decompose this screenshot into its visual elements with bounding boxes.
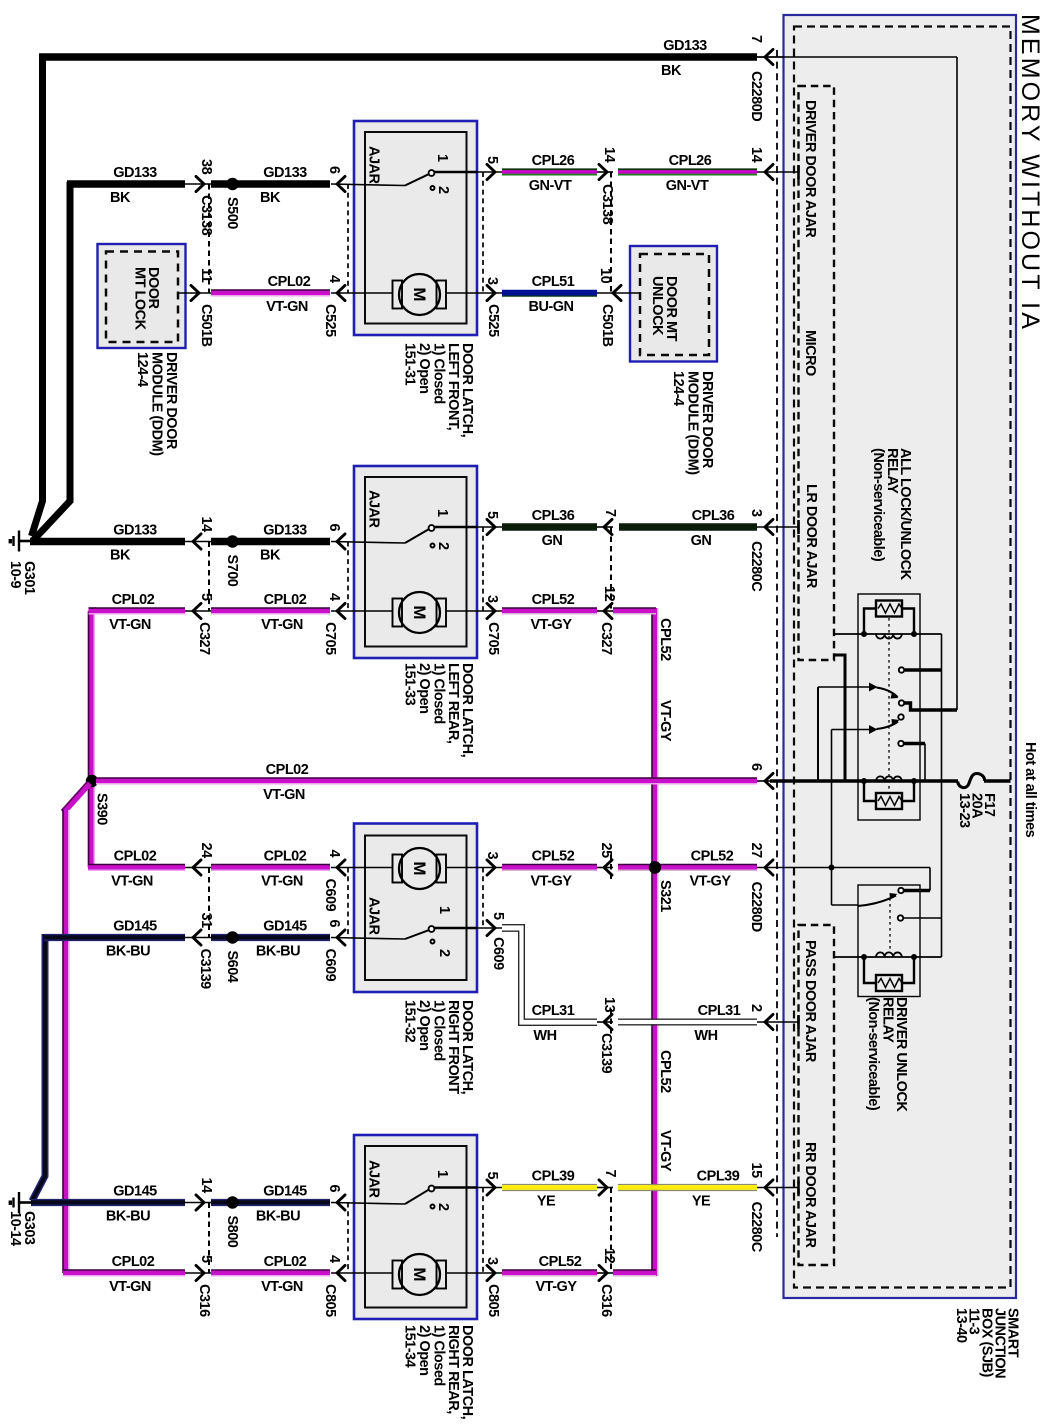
svg-text:VT-GY: VT-GY [530,617,572,633]
latch LF pin 2 label [435,186,451,194]
latch LF pin 6 [337,176,345,191]
svg-text:4: 4 [326,850,342,858]
label CPL36 GN right [691,508,735,549]
svg-text:LR DOOR AJAR: LR DOOR AJAR [803,484,819,589]
svg-text:C3139: C3139 [197,949,213,990]
latch RF text [402,1000,476,1095]
connector C3138 label left [198,195,214,236]
relay1 coil bottom bumps [876,776,902,781]
wire CPL02 VT-GN row Y4 [211,290,330,296]
junction dots relay2 coil [861,954,917,960]
label CPL39 YE left [532,1169,575,1210]
svg-text:(Non-serviceable): (Non-serviceable) [865,997,881,1111]
latch LR pin 4 [337,603,345,618]
svg-text:M: M [410,287,429,301]
wire resistor1 loops [864,609,914,633]
elbow CPL02 top at C327 row [89,608,97,614]
svg-text:2: 2 [436,949,452,957]
connector dashed stub x611 row CPL52 [610,855,612,881]
wire relay1 arm E feed [832,725,878,734]
label CPL52 VT-GY row Y9 right [689,849,733,890]
wire CPL02 VT-GN row Y9 left [88,865,185,871]
wire CPL52 VT-GY vertical x655 [652,608,658,1276]
wire CPL02 VT-GN row Y7 mid [211,608,330,614]
connector C3139 pin 13 inline [597,1014,613,1029]
pin 12 label C327 [601,586,617,602]
pin 5 label latch LR [484,511,500,519]
svg-text:VT-GN: VT-GN [261,1279,303,1295]
connector C3138/C501B dashed line x209 [208,184,210,293]
svg-text:CPL52: CPL52 [691,849,734,865]
svg-text:11: 11 [198,268,214,283]
svg-text:C2280D: C2280D [748,71,764,121]
wire CPL02 VT-GN row Y8 [96,778,757,784]
resistor relay1 bottom [876,793,902,809]
splice S604 [211,931,330,943]
svg-text:CPL52: CPL52 [657,1050,673,1093]
svg-text:4: 4 [326,275,342,283]
svg-text:C2280D: C2280D [748,882,764,932]
svg-text:CPL31: CPL31 [532,1003,575,1019]
svg-text:AJAR: AJAR [366,490,382,529]
pin 24 label [198,843,214,859]
label GD145 BK-BU mid [256,919,307,960]
label SMART JUNCTION BOX (SJB) [953,1308,1021,1378]
pin 6 label latch LR [326,524,342,532]
door latch left rear box [354,466,477,658]
svg-text:7: 7 [602,509,618,517]
svg-text:WH: WH [533,1028,556,1044]
svg-text:6: 6 [326,920,342,928]
svg-text:CPL39: CPL39 [532,1169,575,1185]
svg-text:BK: BK [260,548,281,564]
wire CPL26 GN-VT right segment [618,169,757,174]
door MT lock pin 11 [178,285,211,300]
svg-text:S321: S321 [657,880,673,912]
label PASS DOOR AJAR [802,940,818,1063]
pin 5 label C327 [198,593,214,601]
splice S321 [649,861,661,873]
svg-text:CPL26: CPL26 [669,153,712,169]
svg-text:VT-GY: VT-GY [657,1130,673,1172]
junction dots hot line coil2 [861,778,917,784]
label CPL02 VT-GN row Y4 [266,274,311,315]
svg-text:GD145: GD145 [263,1184,307,1200]
svg-text:S390: S390 [94,793,110,825]
connector C805 label left [322,1284,338,1317]
ground G301 [9,531,32,552]
pin 4 label latch RF [326,850,342,858]
label CPL31 WH left [532,1003,575,1044]
svg-text:27: 27 [748,843,764,859]
connector C525 dashed line left of latch LF [347,184,349,293]
svg-text:AJAR: AJAR [366,1160,382,1199]
svg-text:S604: S604 [224,951,240,983]
connector C805 label right [485,1284,501,1317]
latch LF ajar switch [331,170,477,190]
svg-text:124-4: 124-4 [670,371,686,406]
connector C3139 pin 24 [185,860,211,875]
pin 27 arrow SJB [765,860,773,875]
latch LR ajar switch [331,525,477,547]
svg-text:12: 12 [601,1248,617,1264]
svg-text:VT-GN: VT-GN [111,874,153,890]
connector C327 pin 12 inline [597,603,613,618]
svg-text:3: 3 [484,595,500,603]
relay2 arm [858,893,898,906]
svg-text:3: 3 [484,852,500,860]
label DRIVER UNLOCK RELAY [865,997,909,1112]
label driver door module DDM right [670,371,715,475]
svg-text:AJAR: AJAR [366,897,382,936]
splice S500 [211,178,330,190]
svg-text:13-23: 13-23 [956,793,972,828]
pin 5 label C316 left [198,1255,214,1263]
svg-text:151-31: 151-31 [402,343,418,386]
label CPL02 VT-GN row Y9 left [111,849,157,890]
svg-text:VT-GN: VT-GN [261,874,303,890]
relay1 contact F [898,741,925,746]
label CPL26 GN-VT right [666,153,712,194]
pin 4 label latch RR [326,1255,342,1263]
label GD133 BK row2 left [110,165,157,206]
wire BK-BU vertical from GD145 row to G303 [32,934,45,1201]
all lock/unlock relay box [858,594,920,820]
relay1 NO contact [899,667,942,672]
svg-text:151-33: 151-33 [402,663,418,706]
door latch right rear box [354,1135,477,1319]
label driver door module DDM left [134,352,179,456]
label VT-GY vertical lower [657,1130,673,1172]
pin 5 label latch RF [490,912,506,920]
svg-text:CPL52: CPL52 [539,1254,582,1270]
svg-text:BK: BK [110,548,131,564]
label Hot at all times [1022,742,1038,838]
svg-text:C609: C609 [322,879,338,912]
pin 6 label latch LF [326,166,342,174]
pin 14 arrow SJB [757,164,799,179]
svg-text:C501B: C501B [198,304,214,347]
svg-text:CPL36: CPL36 [692,508,735,524]
latch RF pin 3 [477,860,502,875]
wire relay1 NO vertical x941.5 [941,634,943,957]
svg-text:GD145: GD145 [113,1184,157,1200]
svg-text:3: 3 [748,509,764,517]
connector C327 dashed line x611 [610,527,612,611]
connector C609 label left [322,879,338,912]
label CPL02 VT-GN row Y8 [263,762,309,803]
svg-text:M: M [410,605,429,619]
svg-text:14: 14 [748,147,764,163]
svg-text:BK-BU: BK-BU [106,1209,150,1225]
pin 31 label [198,913,214,929]
connector C609 dashed line left of latch RF [347,868,349,938]
svg-text:C327: C327 [598,622,614,655]
pin 2 arrow SJB [757,1014,799,1029]
svg-text:VT-GN: VT-GN [266,299,308,315]
latch LR pin 2 label [435,542,451,550]
pin 5 label latch RR [484,1172,500,1180]
fuse F17 [958,774,985,788]
label CPL26 GN-VT left [529,153,575,194]
wire contact F to hot line [924,744,926,782]
svg-text:S800: S800 [224,1216,240,1248]
wire CPL31 WH right segment [618,1019,757,1025]
svg-text:YE: YE [537,1194,556,1210]
svg-text:GN-VT: GN-VT [529,178,572,194]
wire CPL52 VT-GY elbow to vertical [613,608,656,614]
wire GD133 BK segment 1 [67,180,185,187]
svg-text:5: 5 [484,511,500,519]
wire CPL51 BU-GN [502,293,597,296]
label CPL31 WH right [694,1003,740,1044]
connector C3139 dashed line x209 [208,868,210,938]
svg-text:2: 2 [435,186,451,194]
pin 4 label latch LR [326,593,342,601]
svg-text:38: 38 [198,159,214,175]
svg-text:MEMORY WITHOUT IA: MEMORY WITHOUT IA [1016,14,1044,332]
latch LR pin 6 [337,534,345,549]
pin 7 label [748,35,764,43]
svg-text:VT-GY: VT-GY [535,1279,577,1295]
latch RF pin 2 label [436,949,452,957]
wire CPL39 YE right segment [618,1185,757,1191]
svg-text:CPL51: CPL51 [532,274,575,290]
svg-text:CPL52: CPL52 [532,849,575,865]
svg-text:6: 6 [326,1185,342,1193]
connector C609 label right [490,937,506,970]
label CPL52 VT-GY row Y15 [535,1254,581,1295]
latch LR pin 1 label [434,509,450,517]
wire CPL02 VT-GN diagonal from S390 [62,782,91,814]
svg-text:CPL39: CPL39 [697,1169,740,1185]
driver unlock relay box [858,885,920,997]
svg-text:1: 1 [434,1170,450,1178]
pin 12 label C316 [601,1248,617,1264]
connector C3139 dashed stub x611 [610,1009,612,1035]
motor M latch LR [331,592,477,633]
label GD145 BK-BU lower left [106,1184,157,1225]
relay2 NO contact [898,888,903,893]
wire GD133 BK top run [39,53,757,60]
connector C2280D label top [748,71,764,121]
svg-text:BK: BK [110,190,131,206]
wire CPL02 VT-GN row Y15 mid [211,1270,330,1276]
wire CPL02 VT-GN vertical x66 [63,810,69,1273]
label CPL52 vertical upper [657,618,673,661]
connector C705 label right [485,622,501,655]
svg-text:5: 5 [198,593,214,601]
door MT lock box (driver door module) [98,244,186,348]
svg-text:BK: BK [260,190,281,206]
pin 25 label [598,843,614,859]
svg-text:VT-GN: VT-GN [263,787,305,803]
svg-text:151-32: 151-32 [402,1000,418,1043]
latch RF pin 1 label [436,906,452,914]
wire GD133 BK row3 left [30,538,185,545]
pin 14 label C327 [198,517,214,533]
svg-text:151-34: 151-34 [402,1325,418,1368]
svg-text:14: 14 [198,1178,214,1194]
svg-text:GD145: GD145 [113,919,157,935]
pin 14 label inline C3138 [601,147,617,163]
wire relay1 armE to relay2 arm vertical x831.5 [832,730,859,906]
label GD133 BK row3 mid [260,523,307,564]
pin 3 label latch RR [484,1257,500,1265]
connector C327 dashed line x209 [208,542,210,612]
wire CPL36 GN right segment [619,523,757,530]
pin 7 label inline C327 [602,509,618,517]
connector C705 label left [322,622,338,655]
connector C327 pin 7 inline [597,519,613,534]
latch RF pin 5 [477,920,502,935]
latch RR pin 6 [337,1195,345,1210]
svg-text:C3139: C3139 [598,1033,614,1074]
latch RF ajar switch [331,926,477,943]
wire CPL52 VT-GY row Y15 [502,1270,597,1276]
svg-text:CPL02: CPL02 [264,592,307,608]
connector C3139 label right [598,1033,614,1074]
latch RF pin 4 [337,860,345,875]
svg-text:C2280C: C2280C [748,1202,764,1253]
connector C3138 pin 38 [185,176,211,191]
wire CPL02 VT-GN vertical x91.5 [89,611,95,868]
svg-text:6: 6 [326,524,342,532]
label MICRO [802,330,818,376]
svg-text:124-4: 124-4 [134,352,150,387]
svg-text:5: 5 [198,1255,214,1263]
relay1 contact C [899,700,904,705]
svg-text:GN-VT: GN-VT [666,178,709,194]
pin 27 label SJB [748,843,764,859]
connector C316 pin 12 inline [597,1265,613,1280]
connector C327 pin 5 [185,603,211,618]
pin 11 label [198,268,214,283]
connector C2280C label pin15 [748,1202,764,1253]
pin 6 label latch RF [326,920,342,928]
label S321 [657,880,673,912]
wire pin7 internal to relay common [757,57,957,710]
label DRIVER DOOR AJAR [802,100,818,238]
connector pin 25 inline [597,860,613,875]
svg-text:CPL02: CPL02 [268,274,311,290]
pin 4 label latch LF [326,275,342,283]
svg-text:CPL02: CPL02 [266,762,309,778]
pin 6 label latch RR [326,1185,342,1193]
svg-text:GD145: GD145 [263,919,307,935]
wire resistor1 bottom loops [864,784,914,802]
svg-text:C525: C525 [485,304,501,337]
connector C525 label right [485,304,501,337]
svg-text:CPL31: CPL31 [698,1003,741,1019]
svg-text:24: 24 [198,843,214,859]
connector C805 dashed line left of latch RR [347,1203,349,1274]
latch RF pin 6 [337,930,345,945]
svg-text:4: 4 [326,593,342,601]
resistor relay1 top [876,601,902,617]
svg-text:7: 7 [602,1170,618,1178]
svg-text:13: 13 [601,997,617,1013]
motor M latch LF [331,274,477,315]
svg-text:VT-GN: VT-GN [109,1279,151,1295]
svg-text:2: 2 [748,1004,764,1012]
door MT unlock pin 10 [597,285,640,300]
svg-text:C501B: C501B [599,304,615,347]
connector C609 label left2 [322,949,338,982]
latch LF text [402,343,476,438]
connector C327 label right [598,622,614,655]
svg-text:12: 12 [601,586,617,602]
label VT-GY vertical upper [657,700,673,742]
relay2 coil line [835,952,942,957]
connector C316 dashed line x209 [208,1203,210,1274]
connector C705 dashed line right of latch LR [482,527,484,611]
motor M latch RF [331,848,477,889]
pin 7 arrow C2280D [757,49,784,64]
connector C3139 pin 31 [185,930,211,945]
svg-text:10-9: 10-9 [7,561,23,588]
latch LF pin 3 [477,285,502,300]
svg-text:10: 10 [597,268,613,284]
svg-text:CPL02: CPL02 [112,592,155,608]
connector C501B label left [198,304,214,347]
latch RR pin 3 [477,1265,502,1280]
door MT unlock box (driver door module) [630,246,717,362]
connector C2280C label [748,541,764,592]
wire pin27 internal [757,867,930,869]
connector C3139 label left [197,949,213,990]
svg-text:BK: BK [661,63,682,79]
svg-text:UNLOCK: UNLOCK [649,276,665,336]
svg-text:GD133: GD133 [263,165,307,181]
svg-text:C327: C327 [196,622,212,655]
pin 38 label [198,159,214,175]
connector C3138/C501B dashed line x611 [610,172,612,293]
connector C327 pin 14 [185,534,211,549]
latch RR pin 5 [477,1180,502,1195]
pin 3 label latch RF [484,852,500,860]
svg-text:VT-GN: VT-GN [109,617,151,633]
dashed sub-box (pass door ajar / RR door ajar) [799,925,835,1265]
wire CPL02 vertical x818 to arm B [817,687,819,781]
svg-text:15: 15 [748,1163,764,1179]
latch LR text [402,663,476,758]
svg-text:GN: GN [691,533,712,549]
pin 3 label latch LF [484,277,500,285]
junction dots relay1 coil [861,631,917,637]
label CPL02 VT-GN row Y7 left [109,592,155,633]
label CPL02 VT-GN row Y15 left [109,1254,155,1295]
svg-text:GD133: GD133 [263,523,307,539]
svg-text:AJAR: AJAR [366,146,382,185]
svg-text:CPL52: CPL52 [532,592,575,608]
svg-text:S500: S500 [224,197,240,229]
svg-text:CPL52: CPL52 [657,618,673,661]
label S604 [224,951,240,983]
connector C3138 label [599,184,615,225]
svg-text:YE: YE [692,1194,711,1210]
label GD133 BK top [661,38,707,79]
svg-text:S700: S700 [224,555,240,587]
svg-text:BK-BU: BK-BU [256,1209,300,1225]
splice S700 [211,535,330,547]
wire BK vertical second from GD133 row to G301 [34,182,71,540]
label G301 [7,561,37,595]
svg-text:3: 3 [484,277,500,285]
label RR DOOR AJAR [802,1142,818,1248]
pin 13 label [601,997,617,1013]
latch LF pin 4 [337,285,345,300]
